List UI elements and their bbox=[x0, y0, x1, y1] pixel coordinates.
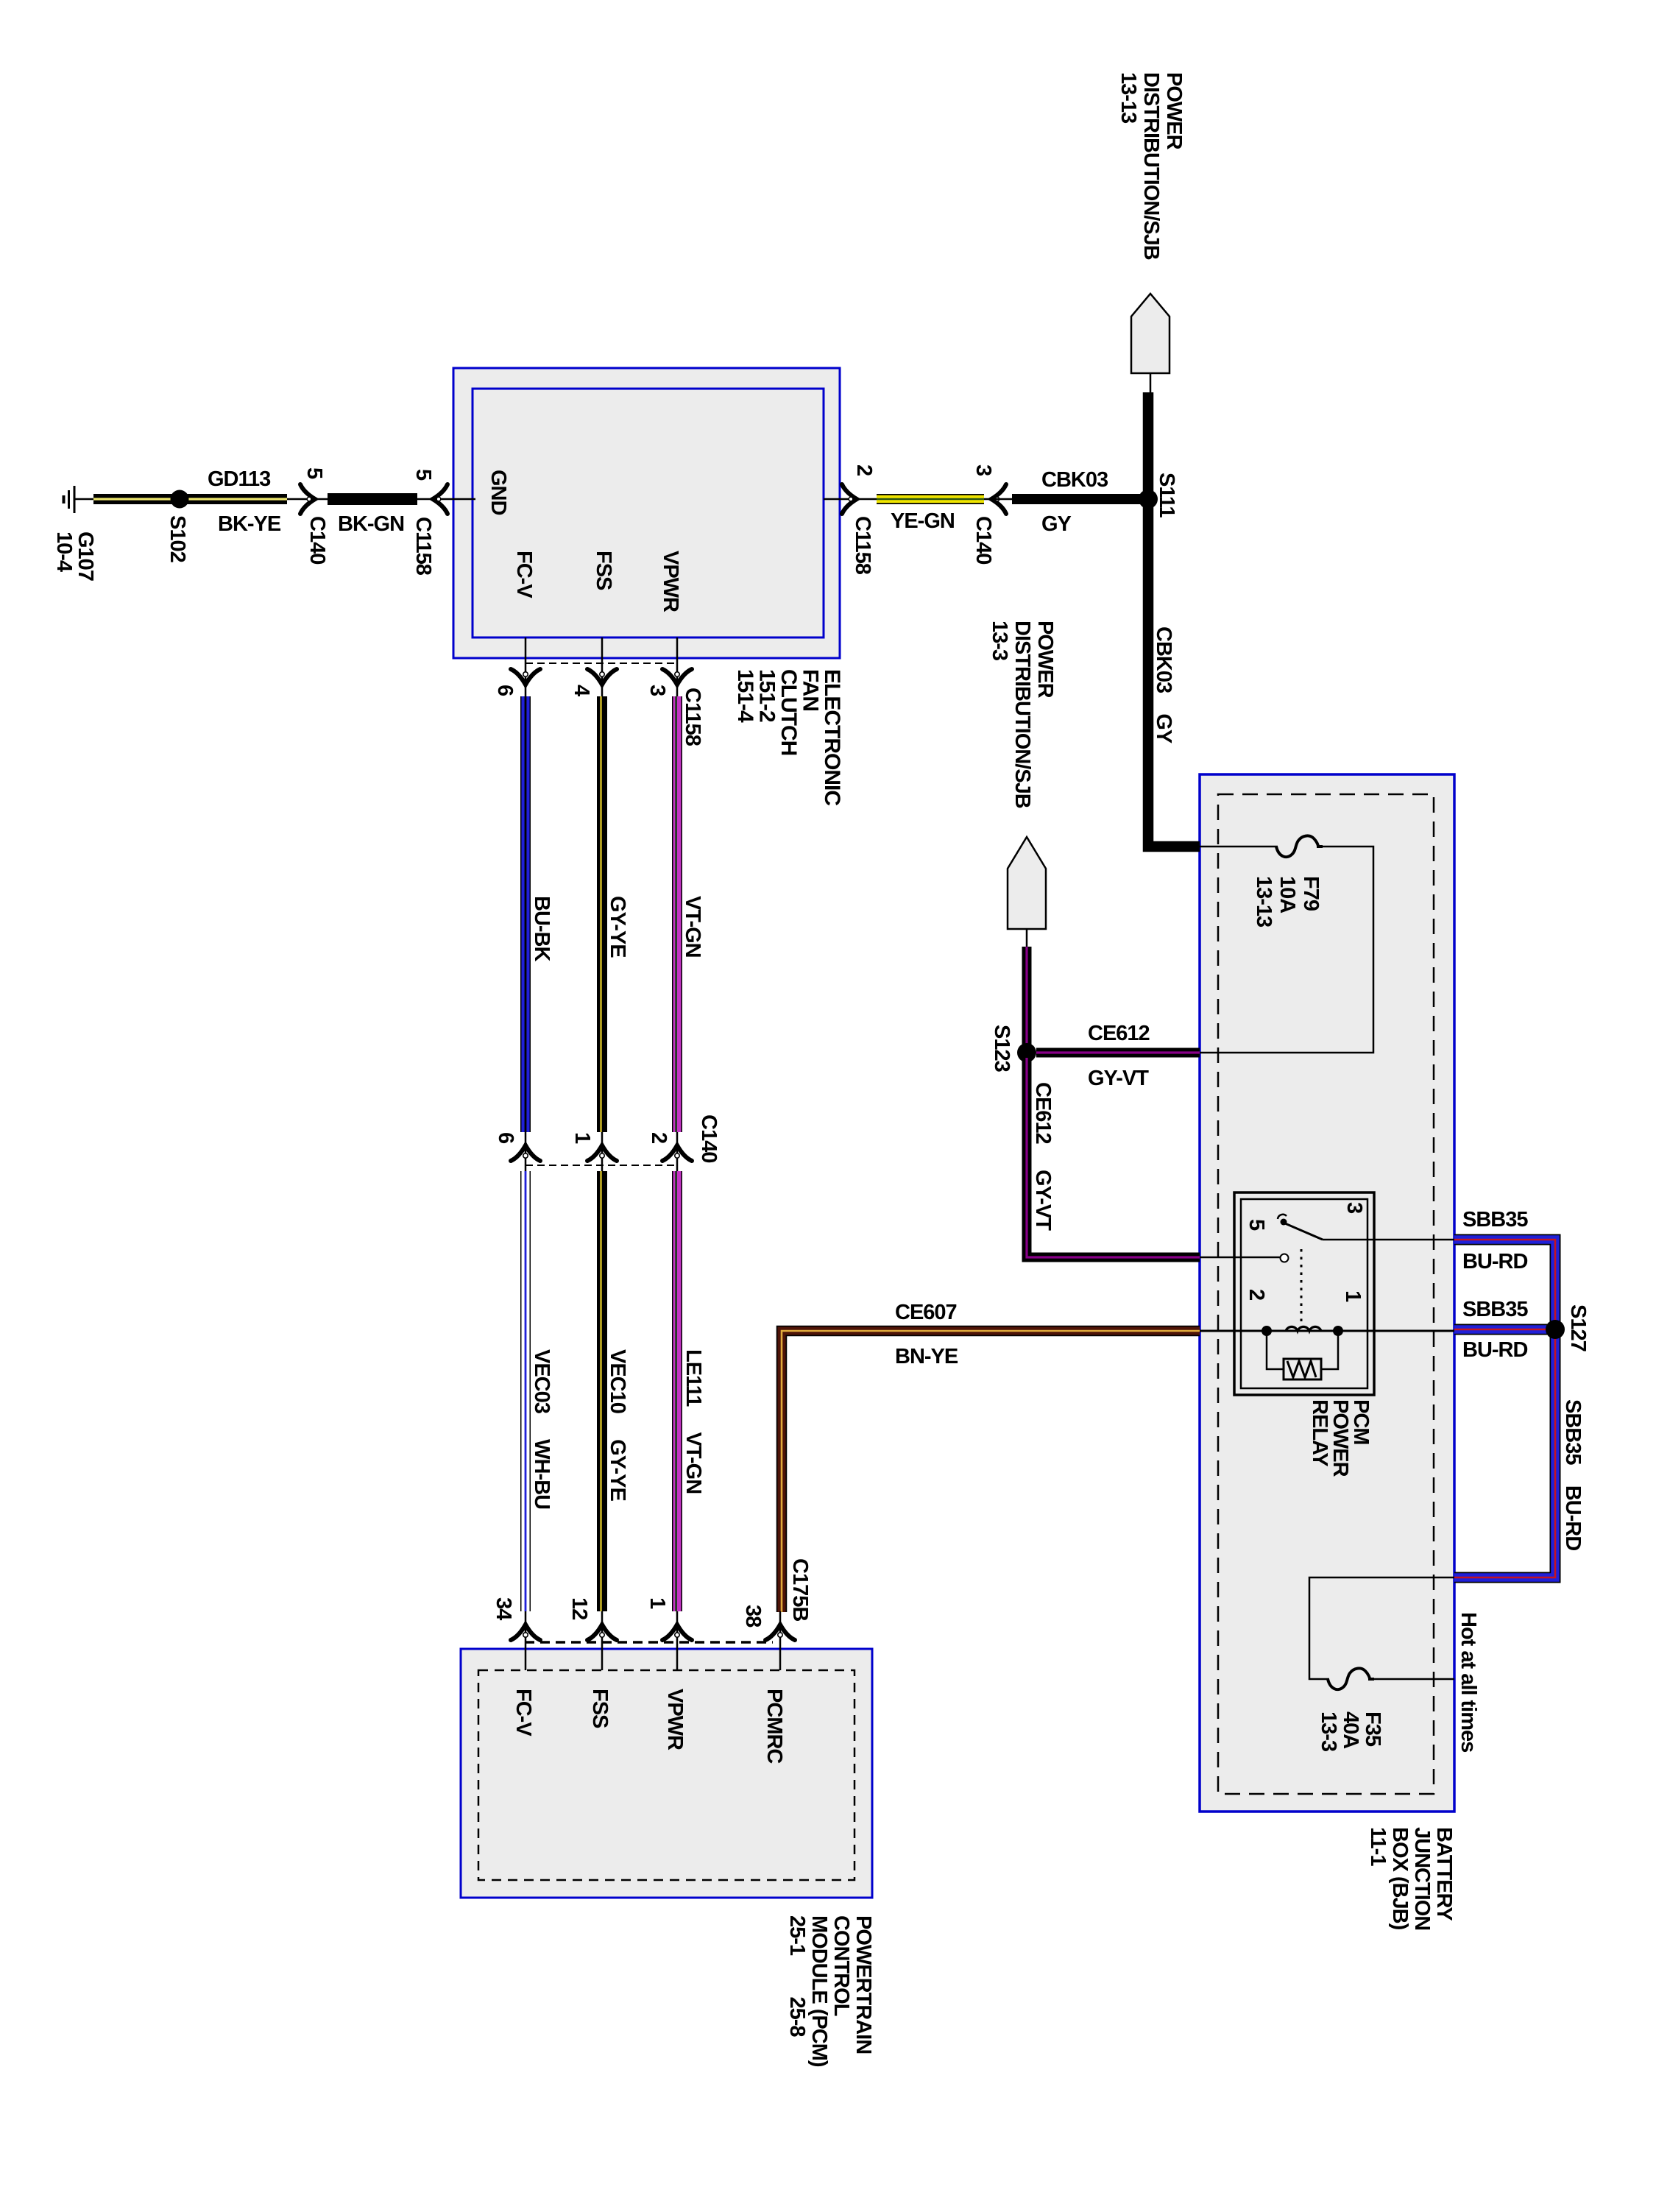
svg-text:Hot at all times: Hot at all times bbox=[1457, 1612, 1480, 1752]
svg-text:SBB35 BU-RD: SBB35 BU-RD bbox=[1561, 1399, 1585, 1550]
wire (thin) relay pin3 to SBB35 bbox=[1323, 1239, 1454, 1241]
wire (thin) relay coil line pin2-pin1 bbox=[1200, 1330, 1454, 1332]
connector C1158 pin5 arrow bbox=[433, 484, 447, 514]
wire SBB35 BU-RD from S127 to F35 bbox=[1454, 1329, 1555, 1577]
wire (thin) VPWR through C140 bbox=[676, 1132, 679, 1171]
powertrain control module box (inner dashed) bbox=[478, 1670, 854, 1880]
svg-text:6: 6 bbox=[494, 1132, 517, 1144]
wire (thin) FSS through C140 bbox=[601, 1132, 604, 1171]
svg-text:C140: C140 bbox=[972, 516, 995, 564]
svg-text:6: 6 bbox=[493, 685, 517, 696]
wire VT-GN bbox=[676, 696, 677, 1132]
powertrain control module box (outer) bbox=[461, 1649, 872, 1898]
relay switch pivot bbox=[1278, 1215, 1287, 1226]
wire (thin) VPWR into PCM bbox=[676, 1611, 679, 1670]
svg-text:1: 1 bbox=[1341, 1290, 1365, 1302]
svg-text:PCMRC: PCMRC bbox=[762, 1689, 786, 1764]
connector C175B pin38 arrow bbox=[765, 1625, 795, 1640]
svg-text:38: 38 bbox=[741, 1605, 765, 1628]
wire SBB35 BU-RD from relay pin3 bbox=[1454, 1240, 1555, 1329]
relay pin5 terminal circle bbox=[1281, 1254, 1289, 1262]
svg-text:S127: S127 bbox=[1566, 1304, 1590, 1351]
relay switch blade bbox=[1285, 1223, 1323, 1240]
svg-text:34: 34 bbox=[492, 1597, 515, 1620]
svg-text:3: 3 bbox=[1342, 1202, 1366, 1214]
wire (thin) FC-V into PCM bbox=[525, 1611, 527, 1670]
svg-text:VT-GN: VT-GN bbox=[681, 896, 704, 958]
svg-text:3: 3 bbox=[645, 685, 669, 696]
resistor zigzag bbox=[1287, 1361, 1316, 1377]
relay armature dotted link bbox=[1301, 1249, 1303, 1323]
svg-text:5: 5 bbox=[1245, 1219, 1268, 1231]
svg-text:2: 2 bbox=[647, 1132, 670, 1143]
fuse F79 symbol bbox=[1276, 835, 1323, 857]
connector C140 pin1 arrow bbox=[587, 1145, 617, 1161]
wire CBK03 GY horizontal bbox=[1012, 494, 1148, 504]
wire CBK03 GY vertical trunk to BJB bbox=[1148, 392, 1200, 847]
svg-text:2: 2 bbox=[1245, 1289, 1268, 1300]
coil junction dots bbox=[1262, 1326, 1272, 1336]
wire (thin) FC-V through C140 bbox=[525, 1132, 527, 1171]
splice S123 bbox=[1017, 1043, 1036, 1062]
off-page connector pentagon (POWER DISTRIBUTION/SJB 13-13) bbox=[1131, 294, 1170, 373]
svg-text:GD113: GD113 bbox=[208, 467, 271, 491]
wire VEC10 GY-YE bbox=[601, 1171, 603, 1611]
wire BK-GN bbox=[328, 493, 417, 505]
wire (thin) FC-V stub bbox=[525, 637, 527, 696]
svg-text:BN-YE: BN-YE bbox=[895, 1345, 958, 1368]
svg-text:S111: S111 bbox=[1155, 473, 1178, 517]
wire (thin) to C140 arrow bbox=[287, 498, 328, 501]
splice S127 bbox=[1546, 1320, 1565, 1339]
electronic fan clutch box (outer) bbox=[453, 368, 840, 658]
resistor branch wires bbox=[1267, 1331, 1284, 1369]
svg-text:F3540A13-3: F3540A13-3 bbox=[1317, 1711, 1384, 1752]
wire (thin) to C1158 arrow bbox=[417, 498, 475, 501]
wire (thin) FSS into PCM bbox=[601, 1611, 604, 1670]
wire YE-GN bbox=[877, 494, 984, 504]
svg-text:S102: S102 bbox=[166, 515, 189, 562]
connector C140 pin3 arrow bbox=[991, 484, 1006, 514]
connector C1158 dashed boundary bbox=[526, 662, 677, 664]
svg-text:5: 5 bbox=[411, 469, 435, 481]
svg-text:2: 2 bbox=[852, 464, 876, 476]
connector C140 dashed boundary bbox=[526, 1165, 677, 1166]
wire (thin) from box to C1158 arrow bbox=[824, 498, 877, 501]
svg-text:GND: GND bbox=[486, 470, 510, 515]
svg-text:CE612: CE612 bbox=[1088, 1022, 1150, 1045]
connector C1158 pin3 arrow bbox=[662, 669, 692, 685]
svg-text:GY-VT: GY-VT bbox=[1088, 1067, 1149, 1090]
wire (thin) PCMRC into PCM bbox=[779, 1611, 782, 1670]
battery junction box BJB (inner dashed) bbox=[1218, 794, 1434, 1794]
svg-text:C1158: C1158 bbox=[681, 688, 704, 746]
electronic fan clutch box (inner) bbox=[473, 389, 824, 637]
wire CE607 BN-YE bbox=[782, 1331, 1200, 1612]
off-page connector pentagon (POWER DISTRIBUTION/SJB 13-3) bbox=[1008, 837, 1046, 929]
svg-text:FC-V: FC-V bbox=[512, 1689, 535, 1736]
svg-text:1: 1 bbox=[645, 1597, 669, 1609]
svg-text:S123: S123 bbox=[990, 1025, 1013, 1073]
svg-text:VPWR: VPWR bbox=[659, 551, 682, 612]
stem of pentagon bbox=[1150, 373, 1152, 392]
connector C140 pin5 arrow bbox=[300, 484, 315, 514]
wire (thin) fuse F79 loop to CE612 node bbox=[1200, 847, 1373, 1053]
svg-text:BU-RD: BU-RD bbox=[1462, 1338, 1527, 1362]
svg-text:BK-YE: BK-YE bbox=[218, 512, 281, 536]
svg-text:5: 5 bbox=[302, 467, 326, 479]
wire LE111 VT-GN bbox=[676, 1171, 677, 1611]
svg-text:BK-GN: BK-GN bbox=[338, 512, 404, 536]
wire (thin) F35 loop bbox=[1309, 1577, 1454, 1679]
svg-text:C1158: C1158 bbox=[851, 516, 874, 575]
connector C175B heavy dashed boundary bbox=[525, 1641, 773, 1644]
svg-text:GY-YE: GY-YE bbox=[606, 896, 629, 958]
svg-text:CBK03: CBK03 bbox=[1041, 468, 1108, 492]
svg-text:CE607: CE607 bbox=[895, 1301, 957, 1324]
svg-text:YE-GN: YE-GN bbox=[891, 509, 955, 533]
wire GD113 BK-YE bbox=[93, 494, 287, 504]
svg-text:C140: C140 bbox=[697, 1114, 721, 1162]
svg-text:VEC03 WH-BU: VEC03 WH-BU bbox=[530, 1349, 553, 1509]
wire (thin) FSS stub bbox=[601, 637, 604, 696]
wire BU-BK bbox=[520, 696, 531, 1132]
wire VEC03 WH-BU bbox=[520, 1171, 531, 1611]
wire (thin) to relay pin 5 bbox=[1200, 1257, 1280, 1259]
wire (thin) VPWR stub bbox=[676, 637, 679, 696]
connector C1158 pin6 arrow bbox=[511, 669, 540, 685]
svg-text:VPWR: VPWR bbox=[663, 1689, 687, 1750]
ground G107 symbol bbox=[64, 486, 94, 513]
connector C175B pin34 arrow bbox=[511, 1625, 540, 1640]
fuse F35 symbol bbox=[1328, 1668, 1374, 1689]
svg-text:CE612 GY-VT: CE612 GY-VT bbox=[1031, 1082, 1055, 1231]
connector C1158 pin4 arrow bbox=[587, 669, 617, 685]
wire GY-YE bbox=[601, 696, 603, 1132]
svg-text:C140: C140 bbox=[305, 516, 329, 564]
svg-text:LE111 VT-GN: LE111 VT-GN bbox=[682, 1349, 705, 1494]
svg-text:C1158: C1158 bbox=[411, 517, 435, 576]
connector C175B pin12 arrow bbox=[587, 1625, 617, 1640]
svg-text:BU-BK: BU-BK bbox=[530, 896, 553, 961]
splice S111 bbox=[1139, 490, 1158, 509]
connector C175B pin1 arrow bbox=[662, 1625, 692, 1640]
svg-text:FSS: FSS bbox=[592, 551, 615, 590]
svg-text:3: 3 bbox=[972, 464, 995, 476]
svg-text:FC-V: FC-V bbox=[512, 551, 536, 598]
wire CE612 GY-VT horizontal to BJB bbox=[1036, 1048, 1200, 1058]
wire (thin) between arrow and CBK03 bbox=[984, 498, 1012, 501]
resistor box bbox=[1284, 1359, 1321, 1379]
svg-text:GY: GY bbox=[1041, 512, 1072, 536]
splice S102 bbox=[171, 490, 189, 509]
svg-text:FSS: FSS bbox=[588, 1689, 612, 1728]
svg-text:BU-RD: BU-RD bbox=[1462, 1250, 1527, 1273]
wire (thin) BJB edge to fuse F79 bbox=[1200, 846, 1278, 848]
svg-text:VEC10 GY-YE: VEC10 GY-YE bbox=[606, 1349, 629, 1501]
svg-text:SBB35: SBB35 bbox=[1462, 1208, 1528, 1232]
svg-text:C175B: C175B bbox=[788, 1558, 812, 1621]
wire SBB35 BU-RD from relay pin1 to S127 bbox=[1454, 1324, 1555, 1335]
wire (thin) F35 to hot feed bbox=[1373, 1678, 1454, 1681]
relay inner box bbox=[1241, 1199, 1367, 1388]
svg-text:12: 12 bbox=[567, 1597, 591, 1619]
svg-text:SBB35: SBB35 bbox=[1462, 1298, 1528, 1321]
connector C140 pin6 arrow bbox=[511, 1145, 540, 1161]
svg-text:CBK03 GY: CBK03 GY bbox=[1152, 626, 1175, 743]
connector C1158 pin2 arrow bbox=[842, 484, 857, 514]
svg-text:1: 1 bbox=[570, 1132, 594, 1144]
stem of pentagon bbox=[1026, 929, 1028, 947]
battery junction box BJB (outer) bbox=[1200, 774, 1454, 1812]
relay outer box bbox=[1234, 1192, 1374, 1395]
connector C140 pin2 arrow bbox=[662, 1145, 692, 1161]
svg-text:4: 4 bbox=[570, 685, 593, 696]
wire GY-VT from pentagon to S123 bbox=[1022, 947, 1032, 1048]
wire CE612 GY-VT from S123 down to relay pin 5 bbox=[1027, 1058, 1200, 1257]
relay coil bbox=[1286, 1326, 1321, 1331]
